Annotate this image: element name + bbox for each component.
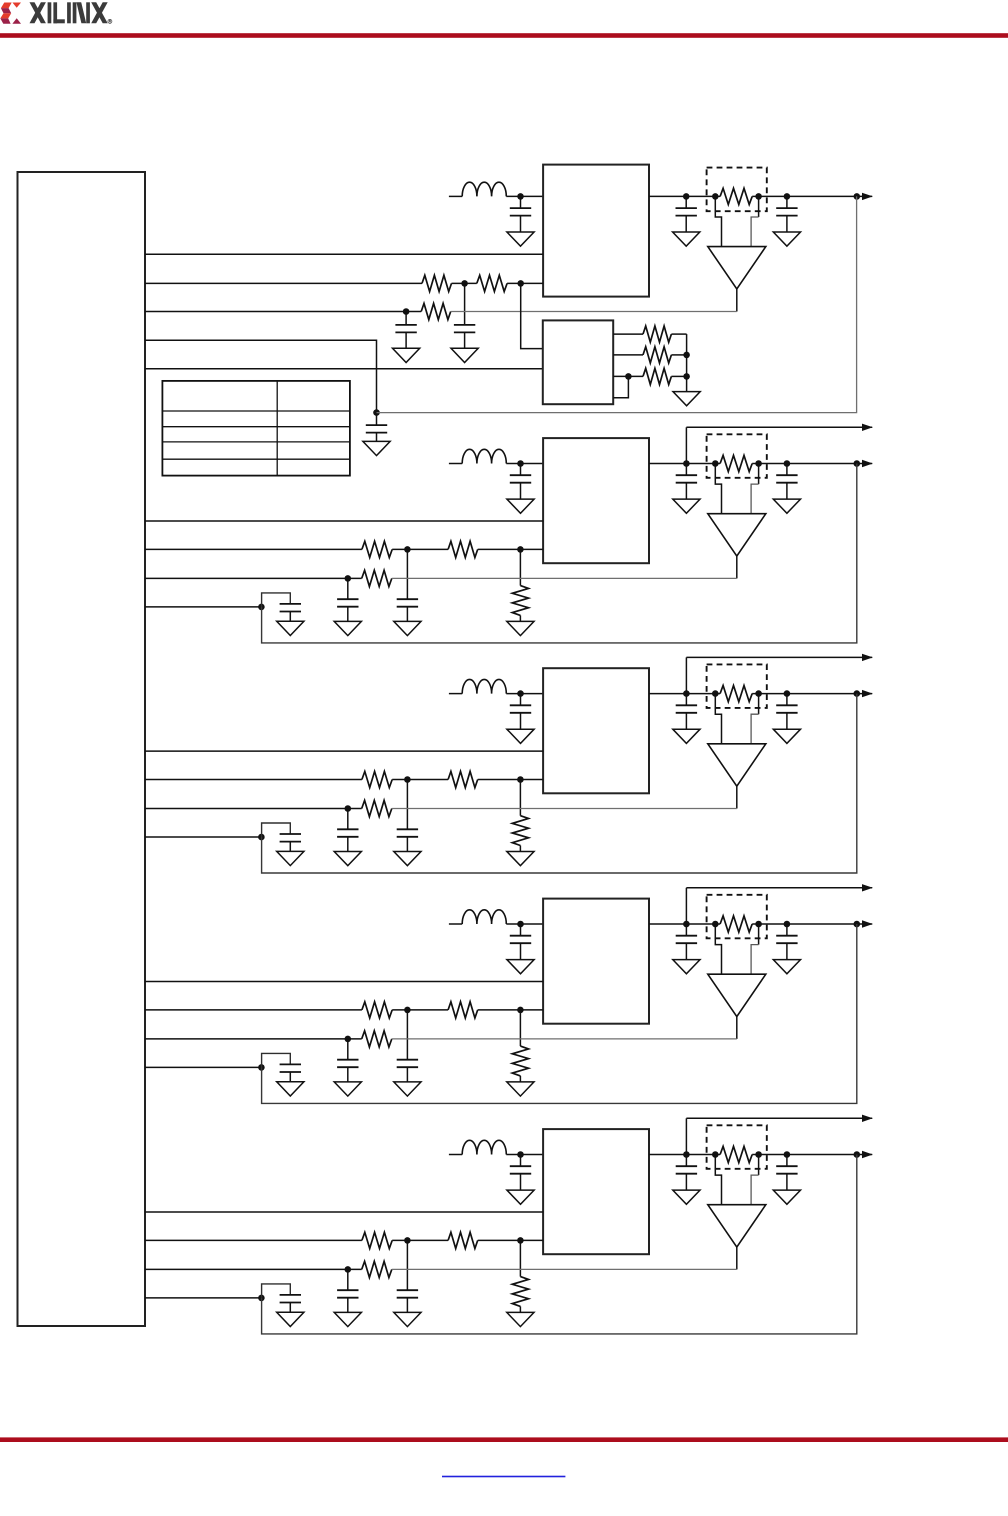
resistor pulldown (rail 2) xyxy=(512,549,528,621)
Xilinx logo mark xyxy=(0,3,21,24)
wire amp output (rail 3) xyxy=(736,786,738,808)
sequencer U3 xyxy=(543,320,613,404)
node feedback tap (rail 5) xyxy=(854,1151,861,1158)
resistor feedback (rail 3) xyxy=(362,800,392,816)
resistor sense (rail 2) xyxy=(720,455,752,471)
regulator U2 (rail 1) xyxy=(543,165,649,297)
FPGA block U1 xyxy=(18,172,146,1326)
wire amp input left (rail 4) xyxy=(715,924,721,974)
dashed option box (rail 4) xyxy=(707,895,767,939)
wire amp output (rail 5) xyxy=(736,1247,738,1269)
wire sense cap link (rail 3) xyxy=(262,823,291,837)
wire feedback to amp (rail 1) xyxy=(451,311,737,313)
resistor pulldown (rail 5) xyxy=(512,1240,528,1312)
wire output rail 3 xyxy=(649,693,872,695)
wire amp input left (rail 5) xyxy=(715,1155,721,1205)
wire aux arrow riser (rail 3) xyxy=(685,657,687,693)
node input junction (rail 4) xyxy=(517,921,524,928)
node output junction B (rail 3) xyxy=(784,690,791,697)
node R right (rail 4) xyxy=(755,921,762,928)
ground pulldown (rail 4) xyxy=(507,1082,534,1096)
node R left (rail 1) xyxy=(712,193,719,200)
node divider right (rail 3) xyxy=(517,776,524,783)
node input junction (rail 1) xyxy=(517,193,524,200)
node feedback node (rail 2) xyxy=(345,575,352,582)
wire FPGA sense row (rail 2) xyxy=(145,606,261,608)
wire amp input left (rail 1) xyxy=(715,196,721,246)
node output junction A (rail 3) xyxy=(683,690,690,697)
wire return loop (rail 3) xyxy=(262,694,857,873)
node divider mid (rail 2) xyxy=(404,546,411,553)
node R left (rail 3) xyxy=(712,690,719,697)
node feedback tap (rail 2) xyxy=(854,460,861,467)
wire amp output (rail 2) xyxy=(736,556,738,578)
node sense junction (rail 4) xyxy=(258,1064,265,1071)
node divider right (rail 2) xyxy=(517,546,524,553)
capacitor output A (rail 5) xyxy=(673,1155,700,1205)
node feedback node (rail 3) xyxy=(345,805,352,812)
op-amp A1 (rail 1) xyxy=(708,247,766,289)
resistor divider B (rail 2) xyxy=(448,541,478,557)
capacitor output B (rail 3) xyxy=(773,694,800,744)
arrow VOUT (rail 5) xyxy=(862,1151,873,1158)
wire FPGA divider row (rail 4) xyxy=(145,1009,543,1011)
wire sequencer out 2 xyxy=(613,354,643,356)
dashed option box (rail 3) xyxy=(707,664,767,708)
dashed option box (rail 2) xyxy=(707,434,767,478)
table xyxy=(162,381,350,476)
capacitor output B (rail 2) xyxy=(773,464,800,514)
capacitor input (rail 2) xyxy=(507,464,534,514)
node R left (rail 5) xyxy=(712,1151,719,1158)
node sequencer bottom xyxy=(625,373,632,380)
wire FPGA feedback row (rail 1) xyxy=(145,311,421,313)
wire amp input right (rail 1) xyxy=(751,196,759,246)
resistor divider B (rail 4) xyxy=(448,1002,478,1018)
wire feedback to amp (rail 5) xyxy=(392,1268,737,1270)
wire VIN lead (rail 2) xyxy=(449,463,462,465)
op-amp (rail 3) xyxy=(708,744,766,786)
arrow aux VOUT (rail 3) xyxy=(862,654,873,661)
capacitor sense (rail 3) xyxy=(280,834,301,851)
capacitor input (rail 4) xyxy=(507,924,534,974)
wire FPGA enable (rail 2) xyxy=(145,520,543,522)
header rule xyxy=(0,33,1008,38)
node bus low xyxy=(683,373,690,380)
node feedback tap (rail 4) xyxy=(854,921,861,928)
wire FPGA divider row (rail 3) xyxy=(145,779,543,781)
capacitor feedback (rail 3) xyxy=(334,809,361,866)
capacitor feedback (rail 2) xyxy=(334,578,361,635)
regulator U4 (rail 2) xyxy=(543,438,649,563)
wire FPGA sense row (rail 3) xyxy=(145,836,261,838)
node input junction (rail 2) xyxy=(517,460,524,467)
wire FPGA sense row (rail 5) xyxy=(145,1297,261,1299)
arrow VOUT (rail 3) xyxy=(862,690,873,697)
resistor divider A (rail 2) xyxy=(362,541,392,557)
capacitor output A (rail 3) xyxy=(673,694,700,744)
wire sense cap link (rail 5) xyxy=(262,1284,291,1298)
node feedback node (rail 1) xyxy=(403,308,410,315)
node R right (rail 5) xyxy=(755,1151,762,1158)
capacitor sense (rail 4) xyxy=(280,1064,301,1081)
capacitor output B (rail 5) xyxy=(773,1155,800,1205)
arrow aux VOUT (rail 4) xyxy=(862,884,873,891)
inductor L4 xyxy=(462,910,506,924)
resistor divider A (rail 4) xyxy=(362,1002,392,1018)
capacitor output A (rail 2) xyxy=(673,464,700,514)
wire resistor bus xyxy=(671,334,686,392)
capacitor sense (rail 5) xyxy=(280,1295,301,1312)
node feedback tap (rail 3) xyxy=(854,690,861,697)
node input junction (rail 3) xyxy=(517,690,524,697)
resistor divider A (rail 5) xyxy=(362,1232,392,1248)
node bus mid xyxy=(683,352,690,359)
wire feedback to amp (rail 4) xyxy=(392,1038,737,1040)
capacitor C3 output (rail 1) xyxy=(773,196,800,246)
wire sequencer out 1 xyxy=(613,333,643,335)
node sense junction (rail 2) xyxy=(258,604,265,611)
wire FPGA feedback row (rail 5) xyxy=(145,1268,362,1270)
node output junction B (rail 1) xyxy=(784,193,791,200)
resistor R1a (rail 1) xyxy=(422,275,452,291)
inductor L1 xyxy=(462,182,506,196)
node sense junction (rail 5) xyxy=(258,1295,265,1302)
wire output rail 5 xyxy=(649,1154,872,1156)
node feedback node (rail 5) xyxy=(345,1266,352,1273)
wire feedback to amp (rail 3) xyxy=(392,808,737,810)
resistor sense (rail 1) xyxy=(720,188,752,204)
arrow aux VOUT (rail 5) xyxy=(862,1115,873,1122)
wire amp input right (rail 5) xyxy=(751,1155,759,1205)
resistor R1b (rail 1) xyxy=(477,275,507,291)
wire amp input right (rail 4) xyxy=(751,924,759,974)
wire VIN lead (rail 5) xyxy=(449,1154,462,1156)
arrow VOUT (rail 2) xyxy=(862,460,873,467)
node divider right (rail 5) xyxy=(517,1237,524,1244)
ground sense (rail 2) xyxy=(277,621,304,635)
inductor L3 xyxy=(462,679,506,693)
wire VIN lead (rail 4) xyxy=(449,923,462,925)
wire amp input right (rail 3) xyxy=(751,694,759,744)
wire amp input left (rail 3) xyxy=(715,694,721,744)
ground pulldown (rail 5) xyxy=(507,1312,534,1326)
node feedback tap (rail 1) xyxy=(854,193,861,200)
wire FPGA enable (rail 3) xyxy=(145,750,543,752)
wire FPGA feedback row (rail 2) xyxy=(145,577,362,579)
wire FPGA pin row 2 (rail 1) xyxy=(145,282,543,284)
inductor L5 xyxy=(462,1140,506,1154)
footer rule xyxy=(0,1437,1008,1442)
capacitor divider mid (rail 3) xyxy=(394,780,421,866)
node R right (rail 2) xyxy=(755,460,762,467)
node R left (rail 4) xyxy=(712,921,719,928)
node sense junction (rail 1) xyxy=(373,409,380,416)
node output junction B (rail 2) xyxy=(784,460,791,467)
capacitor divider mid (rail 2) xyxy=(394,549,421,635)
footer link underline xyxy=(442,1476,565,1478)
regulator U6 (rail 4) xyxy=(543,899,649,1024)
ground sequencer bus xyxy=(673,392,700,406)
wire amp output (rail 1) xyxy=(736,289,738,312)
node R left (rail 2) xyxy=(712,460,719,467)
inductor L2 xyxy=(462,449,506,463)
resistor feedback (rail 5) xyxy=(362,1261,392,1277)
resistor pulldown (rail 3) xyxy=(512,780,528,852)
wire FPGA sense row (rail 4) xyxy=(145,1066,261,1068)
wire divider to sequencer xyxy=(521,283,543,348)
wire VIN lead (rail 1) xyxy=(449,195,462,197)
arrow VOUT (rail 4) xyxy=(862,920,873,927)
wire inductor to regulator (rail 1) xyxy=(506,195,543,197)
dashed option box (rail 1) xyxy=(707,168,767,212)
node divider mid (rail 1) xyxy=(461,280,468,287)
node output junction A (rail 1) xyxy=(683,193,690,200)
resistor sense (rail 3) xyxy=(720,686,752,702)
wire FPGA divider row (rail 5) xyxy=(145,1239,543,1241)
resistor pulldown (rail 4) xyxy=(512,1010,528,1082)
op-amp (rail 2) xyxy=(708,514,766,556)
wire aux arrow riser (rail 4) xyxy=(685,888,687,924)
wire sequencer out 3 xyxy=(613,375,643,377)
resistor sense (rail 5) xyxy=(720,1146,752,1162)
capacitor feedback (rail 4) xyxy=(334,1039,361,1096)
node divider mid (rail 5) xyxy=(404,1237,411,1244)
node to sequencer (rail 1) xyxy=(517,280,524,287)
wire FPGA divider row (rail 2) xyxy=(145,548,543,550)
wire inductor to regulator (rail 4) xyxy=(506,923,543,925)
node divider right (rail 4) xyxy=(517,1007,524,1014)
wire return loop (rail 2) xyxy=(262,464,857,643)
wire aux output (rail 2) xyxy=(686,426,872,428)
XILINX wordmark xyxy=(30,2,112,23)
wire FPGA sense row (rail 1) xyxy=(145,340,377,412)
node R right (rail 1) xyxy=(755,193,762,200)
wire aux output (rail 5) xyxy=(686,1117,872,1119)
wire amp input left (rail 2) xyxy=(715,464,721,514)
resistor R5 xyxy=(643,368,671,384)
wire aux output (rail 4) xyxy=(686,887,872,889)
wire output rail 2 xyxy=(649,463,872,465)
op-amp (rail 5) xyxy=(708,1205,766,1247)
ground sense (rail 4) xyxy=(277,1082,304,1096)
op-amp (rail 4) xyxy=(708,974,766,1016)
wire FPGA to sequencer (rail 1) xyxy=(145,368,543,370)
capacitor C5 (rail 1) xyxy=(393,312,420,363)
node sense junction (rail 3) xyxy=(258,834,265,841)
capacitor sense (rail 2) xyxy=(280,604,301,621)
ground sense (rail 3) xyxy=(277,851,304,865)
node output junction B (rail 5) xyxy=(784,1151,791,1158)
wire VIN lead (rail 3) xyxy=(449,693,462,695)
node output junction A (rail 2) xyxy=(683,460,690,467)
resistor divider B (rail 5) xyxy=(448,1232,478,1248)
node R right (rail 3) xyxy=(755,690,762,697)
resistor R2 feedback (rail 1) xyxy=(421,303,451,319)
wire inductor to regulator (rail 2) xyxy=(506,463,543,465)
capacitor input (rail 5) xyxy=(507,1155,534,1205)
node output junction A (rail 4) xyxy=(683,921,690,928)
wire inductor to regulator (rail 5) xyxy=(506,1154,543,1156)
regulator U7 (rail 5) xyxy=(543,1129,649,1254)
wire amp input right (rail 2) xyxy=(751,464,759,514)
node output junction A (rail 5) xyxy=(683,1151,690,1158)
node divider mid (rail 4) xyxy=(404,1007,411,1014)
capacitor divider mid (rail 4) xyxy=(394,1010,421,1096)
node input junction (rail 5) xyxy=(517,1151,524,1158)
wire FPGA VCCINT (rail 1) xyxy=(145,253,543,255)
ground pulldown (rail 2) xyxy=(507,621,534,635)
wire return loop (rail 5) xyxy=(262,1155,857,1334)
wire inductor to regulator (rail 3) xyxy=(506,693,543,695)
wire return loop (rail 4) xyxy=(262,924,857,1103)
regulator U5 (rail 3) xyxy=(543,668,649,793)
wire sequencer bottom pin xyxy=(613,376,628,397)
capacitor C6 sense (rail 1) xyxy=(363,413,390,456)
capacitor C4 (rail 1) xyxy=(451,283,478,362)
capacitor input (rail 3) xyxy=(507,694,534,744)
node feedback node (rail 4) xyxy=(345,1036,352,1043)
resistor sense (rail 4) xyxy=(720,916,752,932)
capacitor C2 output (rail 1) xyxy=(673,196,700,246)
wire aux arrow riser (rail 5) xyxy=(685,1118,687,1154)
ground sense (rail 5) xyxy=(277,1312,304,1326)
wire FPGA feedback row (rail 4) xyxy=(145,1038,362,1040)
node divider mid (rail 3) xyxy=(404,776,411,783)
wire feedback to amp (rail 2) xyxy=(392,577,737,579)
resistor feedback (rail 2) xyxy=(362,570,392,586)
wire sense cap link (rail 2) xyxy=(262,593,291,607)
wire output rail 4 xyxy=(649,923,872,925)
wire output rail 1 xyxy=(649,195,872,197)
wire amp output (rail 4) xyxy=(736,1017,738,1039)
dashed option box (rail 5) xyxy=(707,1125,767,1169)
capacitor divider mid (rail 5) xyxy=(394,1240,421,1326)
wire aux arrow riser (rail 2) xyxy=(685,427,687,463)
wire FPGA enable (rail 4) xyxy=(145,981,543,983)
wire FPGA enable (rail 5) xyxy=(145,1211,543,1213)
resistor R3 xyxy=(643,326,671,342)
wire FPGA feedback row (rail 3) xyxy=(145,808,362,810)
resistor divider B (rail 3) xyxy=(448,771,478,787)
arrow aux VOUT (rail 2) xyxy=(862,424,873,431)
capacitor feedback (rail 5) xyxy=(334,1269,361,1326)
resistor divider A (rail 3) xyxy=(362,771,392,787)
wire sense to output tap (rail 1) xyxy=(377,196,857,412)
wire aux output (rail 3) xyxy=(686,656,872,658)
arrow VOUT (rail 1) xyxy=(862,193,873,200)
resistor R4 xyxy=(643,347,671,363)
resistor feedback (rail 4) xyxy=(362,1031,392,1047)
capacitor C1 input xyxy=(507,196,534,246)
ground pulldown (rail 3) xyxy=(507,852,534,866)
node output junction B (rail 4) xyxy=(784,921,791,928)
wire sense cap link (rail 4) xyxy=(262,1053,291,1067)
capacitor output A (rail 4) xyxy=(673,924,700,974)
capacitor output B (rail 4) xyxy=(773,924,800,974)
